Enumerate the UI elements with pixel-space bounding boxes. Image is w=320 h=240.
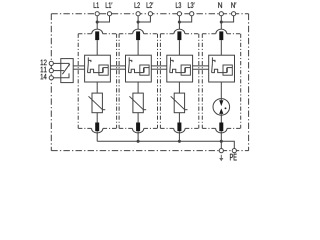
wire L3&#39; elbow to junction — [179, 16, 191, 22]
wire junction to module L2 — [137, 22, 139, 32]
PE terminal — [232, 149, 236, 153]
wire to monitoring unit L3 — [178, 40, 180, 55]
feed-through terminal bottom L3 — [174, 128, 185, 133]
label N prime — [231, 2, 236, 8]
wire bus down to earth terminal — [220, 141, 222, 148]
junction node L3/PE bus — [178, 140, 181, 143]
label terminal 11 — [41, 67, 47, 72]
wire junction to module L3 — [178, 22, 180, 32]
wire terminal 12 to contact — [53, 62, 60, 64]
protection module box L2 (dash-dot) — [118, 34, 120, 129]
disconnector symbol L1 — [88, 57, 99, 72]
wire bottom terminal to PE bus L1 — [96, 131, 98, 141]
label L2 — [135, 2, 140, 8]
PE bus wire — [97, 140, 221, 142]
wire L1&#39; elbow to junction — [97, 16, 109, 22]
disconnector symbol N — [212, 57, 223, 72]
terminal L2&#39; — [148, 12, 152, 16]
wire to monitoring unit L2 — [137, 40, 139, 55]
wire bottom terminal to PE bus L2 — [137, 131, 139, 141]
varistor L2 — [129, 93, 146, 113]
feed-through terminal top L1 — [92, 29, 103, 34]
junction node N — [220, 20, 223, 23]
wire L3 down to junction — [178, 16, 180, 22]
terminal L1&#39; — [107, 12, 111, 16]
enclosure dash-dot border left — [50, 14, 52, 151]
wire L2 down to junction — [137, 16, 139, 22]
switch blade — [62, 64, 69, 74]
wire varistor to bottom terminal L2 — [137, 113, 139, 123]
feed-through terminal bottom L2 — [132, 128, 143, 133]
changeover contact box (remote signalling) — [61, 59, 73, 83]
status indicator box N — [223, 65, 232, 75]
label N — [218, 2, 222, 8]
label terminal 12 — [41, 60, 47, 66]
terminal N — [219, 12, 223, 16]
wire spark gap to bottom terminal N — [220, 115, 222, 122]
terminal L3 — [177, 12, 181, 16]
feed-through terminal top L3 — [174, 29, 185, 34]
enclosure dash-dot border top — [51, 13, 248, 15]
label L3 prime — [188, 2, 195, 8]
terminal L2 — [136, 12, 140, 16]
status indicator box L1 — [99, 65, 108, 75]
wire terminal 11 to contact — [53, 70, 60, 72]
earth arrow symbol — [219, 155, 223, 162]
disconnector symbol L3 — [170, 57, 181, 72]
junction node N/PE bus — [220, 140, 223, 143]
varistor L3 — [171, 93, 188, 113]
wire varistor to bottom terminal L1 — [96, 113, 98, 123]
protection module box N (dash-dot) — [201, 34, 203, 129]
earth terminal — [219, 149, 223, 153]
wire bottom terminal to PE bus L3 — [178, 131, 180, 141]
status indicator box L3 — [181, 65, 190, 75]
varistor L1 — [89, 93, 106, 113]
monitoring/disconnector unit L1 — [85, 55, 111, 82]
wire bottom terminal to PE bus N — [220, 131, 222, 141]
junction node L1 — [96, 20, 99, 23]
signal bus (double line) module L1 to L2 — [110, 65, 125, 67]
enclosure dash-dot border bottom — [51, 150, 248, 152]
wire monitoring to varistor L1 — [96, 82, 98, 93]
wire L2&#39; elbow to junction — [138, 16, 150, 22]
feed-through terminal top N — [216, 29, 227, 34]
signal bus (double line) module L3 to N — [193, 65, 209, 67]
label L1 prime — [106, 2, 113, 8]
terminal L3&#39; — [190, 12, 194, 16]
wire monitoring to varistor L2 — [137, 82, 139, 93]
wire terminal 14 to contact — [53, 77, 60, 79]
terminal 12 — [49, 61, 53, 65]
terminal N&#39; — [232, 12, 236, 16]
feed-through terminal top L2 — [133, 29, 144, 34]
disconnector symbol L2 — [128, 57, 139, 72]
signal bus (double line) module L2 to L3 — [151, 65, 167, 67]
feed-through terminal bottom L1 — [92, 128, 103, 133]
wire to monitoring unit L1 — [96, 40, 98, 55]
label L1 — [94, 2, 99, 8]
terminal 14 — [49, 76, 53, 80]
terminal L1 — [95, 12, 99, 16]
status indicator box L2 — [140, 65, 149, 75]
wire varistor to bottom terminal L3 — [178, 113, 180, 123]
label L2 prime — [147, 2, 154, 8]
feed-through terminal bottom N — [216, 128, 227, 133]
wire junction to module L1 — [96, 22, 98, 32]
contact 12 fixed lead — [61, 63, 69, 66]
spark gap N-PE — [213, 99, 230, 116]
label L3 — [176, 2, 181, 8]
contact 14 fixed lead — [61, 73, 69, 77]
wire N down to junction — [220, 16, 222, 22]
wire bus elbow to PE terminal — [221, 141, 234, 148]
signal bus (double line) switch box to module L1 — [73, 65, 84, 67]
enclosure dash-dot border right — [248, 14, 250, 151]
label terminal 14 — [41, 74, 47, 79]
monitoring/disconnector unit L3 — [167, 55, 193, 82]
junction node L3 — [178, 20, 181, 23]
protection module box L3 (dash-dot) — [159, 34, 161, 129]
wire monitoring to varistor L3 — [178, 82, 180, 93]
wire monitoring to spark gap N — [220, 82, 222, 99]
monitoring/disconnector unit N — [209, 55, 235, 82]
wire N&#39; elbow to junction — [221, 16, 233, 22]
junction node L2/PE bus — [137, 140, 140, 143]
wire to monitoring unit N — [220, 40, 222, 55]
junction node L2 — [137, 20, 140, 23]
monitoring/disconnector unit L2 — [126, 55, 152, 82]
contact 11 common lead — [61, 70, 64, 72]
protection module box L1 (dash-dot) — [77, 34, 79, 129]
wire junction to module N — [220, 22, 222, 32]
wire L1 down to junction — [96, 16, 98, 22]
label PE — [230, 154, 237, 161]
terminal 11 — [49, 69, 53, 73]
